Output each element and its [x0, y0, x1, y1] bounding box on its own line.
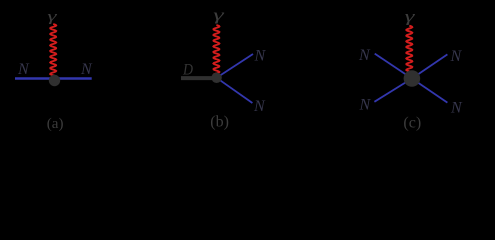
svg-text:N: N [450, 48, 463, 65]
svg-text:N: N [80, 61, 93, 78]
svg-text:N: N [17, 61, 30, 78]
svg-text:N: N [254, 47, 267, 64]
svg-text:γ: γ [213, 7, 225, 24]
svg-text:(b): (b) [210, 114, 229, 131]
svg-text:N: N [358, 47, 371, 64]
thick D line (b) [181, 76, 215, 80]
vertex dot (a) [49, 75, 60, 86]
vertex dot (c) [404, 70, 421, 87]
fermion line upper-right (c) [412, 54, 448, 78]
svg-text:N: N [359, 97, 372, 114]
fermion line N-N (a) [15, 77, 92, 80]
fermion line upper-left (c) [375, 54, 412, 79]
svg-text:D: D [182, 62, 193, 79]
fermion line to lower N (b) [217, 78, 253, 103]
vertex dot (b) [211, 73, 221, 83]
svg-text:γ: γ [405, 9, 416, 26]
photon line gamma (b) [213, 25, 219, 75]
svg-text:N: N [253, 98, 266, 115]
fermion line to upper N (b) [217, 54, 253, 78]
fermion line lower-right (c) [412, 79, 448, 103]
fermion line lower-left (c) [374, 79, 412, 102]
photon line gamma (a) [50, 24, 56, 77]
svg-text:N: N [450, 100, 463, 117]
svg-text:(a): (a) [47, 116, 64, 132]
photon line gamma (c) [406, 26, 412, 73]
svg-text:(c): (c) [403, 115, 421, 132]
